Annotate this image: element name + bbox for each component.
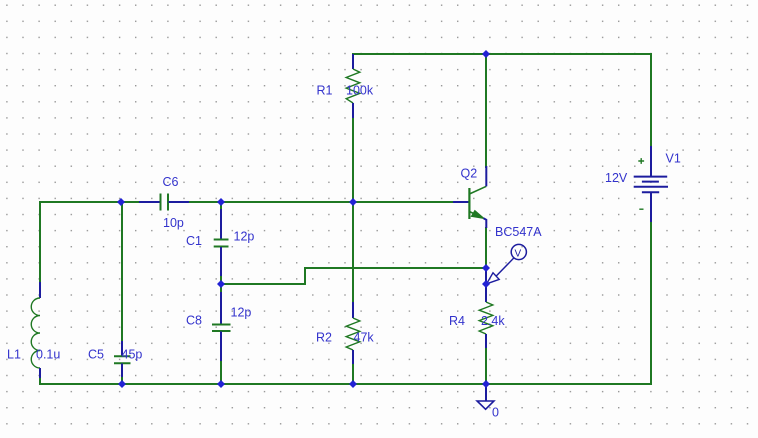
wire emitter-probe segment (485, 268, 487, 284)
svg-text:Q2: Q2 (461, 167, 478, 181)
svg-text:R2: R2 (316, 331, 332, 345)
junction node mid-C1 (217, 198, 225, 206)
svg-text:C8: C8 (186, 314, 202, 328)
wire C1 top stub (220, 202, 222, 210)
capacitor C6 (139, 175, 189, 230)
ground 0 (477, 384, 499, 420)
wire C5 branch upper (121, 202, 123, 341)
wire C5 branch lower (121, 377, 123, 384)
svg-text:12p: 12p (231, 306, 252, 320)
wire bottom rail (40, 383, 651, 385)
wire R4 bottom (485, 348, 487, 384)
wire mid rail right (189, 201, 453, 203)
wire R1-R2 middle (352, 118, 354, 302)
transistor Q2 (453, 166, 542, 239)
svg-text:10p: 10p (163, 216, 184, 230)
wire R2 bottom (352, 364, 354, 384)
svg-text:12V: 12V (605, 171, 628, 185)
svg-text:L1: L1 (7, 348, 21, 362)
wire feedback tap (221, 268, 486, 284)
svg-text:47k: 47k (354, 331, 375, 345)
wire C1-C8 mid (220, 276, 222, 292)
resistor R2 (316, 302, 374, 364)
voltage probe V (487, 244, 527, 283)
svg-text:2.4k: 2.4k (481, 314, 505, 328)
wire C8 bottom (220, 361, 222, 384)
svg-text:12p: 12p (234, 230, 255, 244)
svg-text:C5: C5 (88, 348, 104, 362)
wire L1 bottom (39, 378, 41, 384)
junction node emitter-feedback (482, 264, 490, 272)
svg-text:V1: V1 (666, 152, 681, 166)
wire mid rail left (40, 201, 139, 203)
junction node mid-R (349, 198, 357, 206)
resistor R1 (317, 54, 374, 118)
wire right rail lower (650, 222, 652, 384)
capacitor C1 (186, 209, 254, 276)
junction node bottom-R4 (482, 380, 490, 388)
svg-text:0.1u: 0.1u (36, 348, 60, 362)
svg-text:BC547A: BC547A (495, 225, 542, 239)
resistor R4 (449, 284, 505, 348)
junction node emitter-probe (482, 280, 490, 288)
wire collector branch (485, 54, 487, 167)
junction node bottom-C5 (118, 380, 126, 388)
svg-text:C1: C1 (186, 234, 202, 248)
junction node top rail (482, 50, 490, 58)
svg-text:45p: 45p (122, 348, 143, 362)
wire emitter branch (485, 228, 487, 268)
svg-text:0: 0 (492, 406, 499, 420)
junction node bottom-C8 (217, 380, 225, 388)
junction node C1-C8 tap (217, 280, 225, 288)
capacitor C5 (88, 341, 142, 377)
wire top rail (353, 53, 651, 55)
battery V1 (605, 146, 681, 222)
junction node bottom-R2 (349, 380, 357, 388)
inductor L1 (7, 282, 60, 378)
svg-text:100k: 100k (346, 84, 374, 98)
svg-text:C6: C6 (163, 175, 179, 189)
capacitor C8 (186, 292, 251, 361)
junction node mid-C5 (117, 198, 125, 206)
svg-text:R4: R4 (449, 314, 465, 328)
svg-text:R1: R1 (317, 84, 333, 98)
wire right rail upper (650, 54, 652, 146)
wire left rail (39, 202, 41, 282)
svg-text:V: V (515, 249, 522, 260)
